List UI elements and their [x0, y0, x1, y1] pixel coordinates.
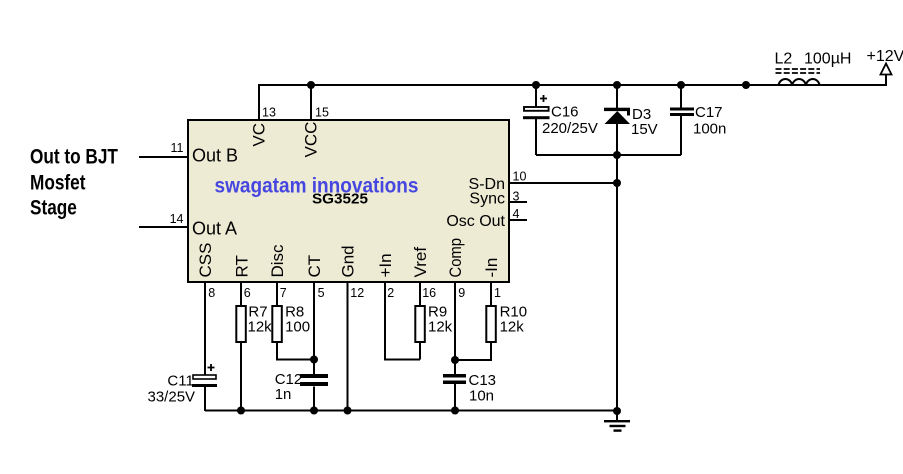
wire pin 12 Gnd to rail: [347, 283, 349, 411]
wire bottom ground rail: [205, 410, 617, 412]
svg-text:Out to BJT: Out to BJT: [30, 146, 118, 169]
node D3 bottom link: [613, 151, 621, 159]
wire R9 bottom: [419, 343, 421, 360]
svg-text:-In: -In: [482, 258, 501, 278]
svg-text:Stage: Stage: [30, 197, 77, 220]
wire C11 bottom to rail: [204, 387, 206, 411]
inductor L2: [776, 69, 821, 85]
node rail pin12: [344, 407, 352, 415]
wire pin 7 to R8: [276, 283, 278, 306]
wire C13 bottom to rail: [454, 384, 456, 411]
svg-text:C13: C13: [469, 372, 497, 389]
svg-text:100µH: 100µH: [804, 51, 851, 68]
wire C17 top: [680, 85, 682, 108]
svg-text:Disc: Disc: [268, 244, 287, 278]
svg-text:Comp: Comp: [446, 238, 465, 278]
capacitor C11 plates: [192, 364, 217, 387]
capacitor C17 plates: [670, 108, 694, 117]
wire pin 8 to C11: [204, 283, 206, 375]
wire S-Dn pin10 to D3 node: [510, 182, 617, 184]
svg-text:Vref: Vref: [411, 247, 430, 278]
wire C17 bottom: [680, 116, 682, 155]
wire pin 13 vertical: [258, 84, 260, 120]
wire pin 9 to C13: [454, 283, 456, 374]
svg-text:4: 4: [513, 207, 520, 221]
svg-text:C16: C16: [551, 104, 579, 121]
svg-text:Out B: Out B: [192, 146, 238, 166]
svg-text:VC: VC: [250, 123, 269, 147]
svg-text:VCC: VCC: [302, 122, 321, 158]
wire pin 14 Out A: [139, 226, 187, 228]
svg-text:Osc Out: Osc Out: [446, 213, 505, 230]
wire D3 vertical through to ground: [616, 85, 618, 421]
zener diode D3: [604, 108, 630, 124]
svg-text:7: 7: [280, 286, 287, 300]
node rail C12: [310, 407, 318, 415]
svg-text:14: 14: [170, 212, 184, 226]
resistor R7: [236, 306, 246, 342]
wire pin 16 to R9: [419, 283, 421, 306]
svg-text:Mosfet: Mosfet: [30, 172, 86, 195]
svg-text:100: 100: [285, 319, 310, 336]
svg-text:C17: C17: [695, 104, 723, 121]
wire C12 bottom to rail: [313, 387, 315, 412]
svg-text:12k: 12k: [248, 319, 273, 336]
svg-text:SG3525: SG3525: [312, 190, 368, 207]
wire R7 bottom to rail: [240, 343, 242, 412]
svg-text:12k: 12k: [428, 319, 453, 336]
capacitor C13 plates: [443, 374, 466, 384]
capacitor C12 plates: [300, 374, 328, 386]
+12V terminal triangle: [881, 64, 892, 75]
resistor R9: [415, 306, 425, 342]
svg-text:8: 8: [208, 286, 215, 300]
wire pin 2 to R9 bottom: [385, 283, 420, 360]
svg-text:C11: C11: [167, 373, 193, 390]
svg-text:Sync: Sync: [469, 191, 505, 208]
svg-text:15V: 15V: [631, 121, 658, 138]
node pin9/R10: [451, 356, 459, 364]
wire R8 bottom to pin5 node: [277, 343, 314, 360]
svg-text:2: 2: [387, 286, 394, 300]
node rail ground: [613, 407, 621, 415]
wire pin 6 to R7: [240, 283, 242, 306]
wire pin 1 to R10: [490, 283, 492, 306]
wire pin 15 vertical: [310, 84, 312, 120]
svg-text:5: 5: [318, 286, 325, 300]
svg-text:3: 3: [513, 190, 520, 204]
svg-text:10: 10: [513, 170, 527, 184]
node rail spare: [742, 81, 750, 89]
ground symbol: [604, 420, 630, 432]
svg-text:13: 13: [262, 106, 276, 120]
svg-text:10n: 10n: [469, 388, 494, 405]
svg-text:+In: +In: [376, 253, 395, 277]
wire pin 4 stub: [510, 219, 527, 221]
wire bottom link C16-D3-C17: [536, 154, 681, 156]
IC U1 SG3525 body: [188, 120, 509, 282]
svg-text:1n: 1n: [275, 386, 292, 403]
node pin15/rail: [307, 81, 315, 89]
svg-text:CSS: CSS: [196, 243, 215, 278]
node C16/rail: [532, 81, 540, 89]
svg-text:6: 6: [244, 286, 251, 300]
svg-text:Gnd: Gnd: [339, 245, 358, 277]
svg-text:1: 1: [494, 286, 501, 300]
node rail R7: [237, 407, 245, 415]
svg-text:L2: L2: [775, 51, 793, 68]
wire top rail from pin13 to +12V corner: [259, 75, 886, 85]
node pin5/R8: [310, 356, 318, 364]
wire pin 5 to C12: [313, 283, 315, 374]
node rail C13: [451, 407, 459, 415]
svg-text:100n: 100n: [693, 121, 726, 138]
node D3/rail: [613, 81, 621, 89]
wire pin 3 stub: [510, 201, 527, 203]
svg-text:Out A: Out A: [192, 219, 237, 239]
wire C16 top: [535, 85, 537, 107]
node C17/rail: [677, 81, 685, 89]
node S-Dn: [613, 179, 621, 187]
resistor R10: [486, 306, 496, 342]
svg-text:16: 16: [422, 286, 436, 300]
svg-text:11: 11: [171, 141, 184, 155]
svg-text:+12V: +12V: [867, 48, 903, 65]
svg-text:CT: CT: [305, 255, 324, 278]
svg-text:RT: RT: [233, 255, 252, 277]
svg-text:12k: 12k: [500, 319, 525, 336]
svg-text:9: 9: [458, 286, 465, 300]
svg-text:12: 12: [350, 286, 364, 300]
wire pin 11 Out B: [139, 156, 187, 158]
label Out to BJT Mosfet Stage: [30, 146, 118, 220]
wire R10 bottom to pin9 node: [455, 343, 491, 361]
svg-text:220/25V: 220/25V: [542, 120, 598, 137]
capacitor C16 plates: [523, 95, 550, 119]
resistor R8: [272, 306, 282, 342]
svg-text:33/25V: 33/25V: [148, 388, 196, 405]
svg-text:15: 15: [315, 106, 329, 120]
wire C16 bottom: [535, 119, 537, 155]
